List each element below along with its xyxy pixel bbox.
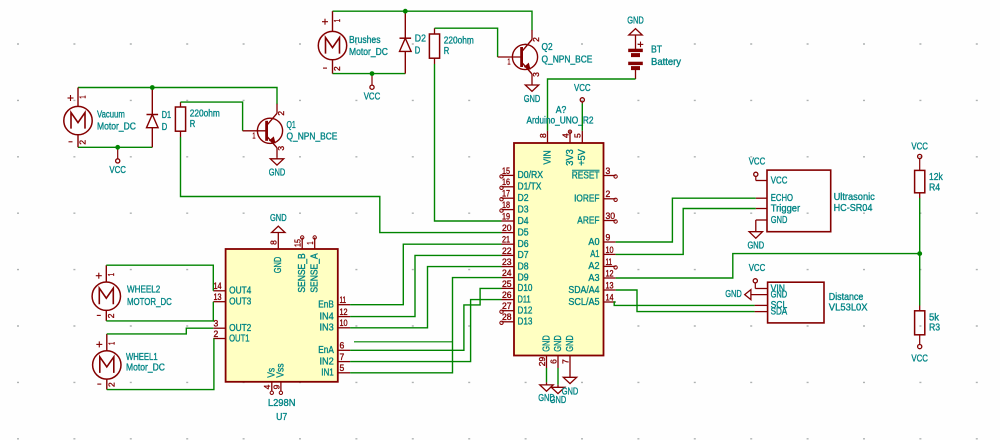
svg-text:2: 2: [78, 140, 88, 145]
svg-text:12: 12: [340, 307, 348, 317]
svg-text:22: 22: [502, 246, 512, 256]
svg-text:D12: D12: [518, 306, 533, 317]
svg-text:15: 15: [293, 239, 303, 247]
svg-text:GND: GND: [725, 289, 742, 300]
svg-text:Trigger: Trigger: [771, 203, 801, 214]
svg-text:15: 15: [502, 166, 510, 176]
svg-text:VCC: VCC: [364, 91, 381, 102]
svg-text:6: 6: [340, 341, 345, 351]
svg-text:D: D: [415, 46, 421, 57]
svg-text:1: 1: [106, 342, 116, 345]
svg-text:VCC: VCC: [749, 157, 766, 168]
svg-text:D13: D13: [518, 317, 533, 328]
svg-text:EnA: EnA: [318, 345, 334, 356]
svg-text:D8: D8: [518, 261, 529, 272]
svg-text:A3: A3: [588, 273, 599, 284]
svg-text:8: 8: [269, 240, 279, 245]
svg-text:WHEEL2: WHEEL2: [127, 285, 161, 296]
svg-text:12: 12: [606, 268, 614, 278]
svg-text:SDA/A4: SDA/A4: [568, 285, 599, 296]
svg-text:4: 4: [560, 133, 570, 138]
svg-text:GND: GND: [771, 215, 788, 226]
svg-text:D0/RX: D0/RX: [518, 170, 544, 181]
svg-text:A0: A0: [588, 237, 599, 248]
svg-text:VCC: VCC: [749, 263, 766, 274]
svg-text:GND: GND: [269, 168, 286, 179]
svg-text:GND: GND: [524, 94, 541, 105]
svg-text:3: 3: [606, 166, 611, 176]
svg-text:SDA: SDA: [771, 306, 788, 317]
svg-text:27: 27: [502, 301, 512, 311]
svg-text:21: 21: [502, 235, 510, 245]
svg-text:D1: D1: [162, 110, 172, 121]
svg-text:29: 29: [537, 357, 547, 367]
svg-text:+5V: +5V: [577, 149, 588, 166]
svg-text:IOREF: IOREF: [574, 194, 599, 205]
svg-text:1: 1: [332, 19, 342, 22]
svg-text:R: R: [190, 119, 196, 130]
svg-text:WHEEL1: WHEEL1: [126, 352, 158, 363]
svg-text:AREF: AREF: [577, 215, 599, 226]
svg-text:28: 28: [502, 312, 512, 322]
svg-text:BT: BT: [651, 45, 662, 56]
svg-text:16: 16: [502, 177, 510, 187]
svg-text:SCL/A5: SCL/A5: [568, 297, 599, 308]
svg-text:VCC: VCC: [574, 83, 591, 94]
svg-text:GND: GND: [771, 289, 788, 300]
svg-text:SENSE_A: SENSE_A: [310, 253, 321, 292]
svg-text:Motor_DC: Motor_DC: [126, 363, 165, 374]
svg-text:18: 18: [502, 200, 510, 210]
svg-text:25: 25: [502, 279, 512, 289]
svg-text:GND: GND: [541, 335, 552, 352]
svg-text:MOTOR_DC: MOTOR_DC: [127, 297, 172, 308]
svg-text:OUT3: OUT3: [229, 297, 251, 308]
svg-text:12k: 12k: [929, 172, 944, 183]
svg-text:6: 6: [548, 359, 558, 364]
svg-text:D1/TX: D1/TX: [518, 182, 542, 193]
svg-text:10: 10: [606, 245, 614, 255]
svg-text:8: 8: [538, 133, 548, 138]
svg-text:D6: D6: [518, 239, 529, 250]
svg-text:Vss: Vss: [276, 363, 287, 377]
svg-text:GND: GND: [553, 335, 564, 352]
svg-text:2: 2: [606, 189, 611, 199]
svg-text:2: 2: [106, 382, 116, 387]
svg-text:2: 2: [531, 37, 541, 42]
svg-text:R4: R4: [929, 182, 940, 193]
svg-text:Q2: Q2: [542, 42, 553, 53]
svg-text:Brushes: Brushes: [349, 35, 381, 46]
svg-text:GND: GND: [627, 16, 644, 27]
svg-text:5: 5: [573, 133, 583, 138]
svg-text:Battery: Battery: [651, 57, 682, 68]
svg-text:GND: GND: [562, 387, 579, 398]
svg-text:Q1: Q1: [287, 120, 297, 131]
svg-text:9: 9: [606, 232, 611, 242]
svg-text:2: 2: [276, 111, 286, 116]
svg-text:D2: D2: [518, 193, 529, 204]
svg-text:Distance: Distance: [829, 292, 864, 303]
svg-text:GND: GND: [748, 241, 765, 252]
svg-text:D2: D2: [415, 34, 426, 45]
svg-text:VCC: VCC: [109, 165, 126, 176]
svg-text:5k: 5k: [929, 312, 940, 323]
svg-text:7: 7: [560, 359, 570, 364]
svg-text:20: 20: [502, 223, 512, 233]
svg-text:GND: GND: [273, 257, 284, 274]
svg-text:30: 30: [606, 211, 616, 221]
svg-text:VL53L0X: VL53L0X: [829, 302, 868, 313]
svg-text:A2: A2: [588, 261, 599, 272]
svg-text:17: 17: [502, 189, 510, 199]
svg-text:Q_NPN_BCE: Q_NPN_BCE: [542, 55, 593, 66]
svg-text:D5: D5: [518, 227, 529, 238]
svg-text:3: 3: [276, 146, 286, 151]
svg-text:RESET: RESET: [572, 170, 600, 181]
svg-text:R: R: [444, 46, 450, 57]
svg-text:IN4: IN4: [320, 311, 335, 322]
svg-text:26: 26: [502, 290, 512, 300]
svg-text:3V3: 3V3: [565, 149, 576, 166]
svg-text:IN1: IN1: [321, 368, 334, 379]
svg-text:IN2: IN2: [320, 356, 335, 367]
svg-text:IN3: IN3: [320, 323, 335, 334]
svg-text:A1: A1: [590, 249, 600, 260]
svg-text:2: 2: [106, 313, 116, 318]
svg-text:Motor_DC: Motor_DC: [349, 47, 388, 58]
svg-text:Q_NPN_BCE: Q_NPN_BCE: [287, 131, 338, 142]
svg-text:OUT4: OUT4: [229, 286, 251, 297]
svg-text:1: 1: [507, 57, 510, 67]
svg-text:D4: D4: [518, 216, 529, 227]
svg-text:SENSE_B: SENSE_B: [297, 253, 308, 292]
svg-text:VCC: VCC: [911, 141, 928, 152]
svg-text:1: 1: [305, 241, 315, 244]
svg-text:VIN: VIN: [542, 150, 553, 164]
svg-text:D: D: [162, 122, 168, 133]
svg-text:220ohm: 220ohm: [190, 109, 220, 120]
svg-text:11: 11: [340, 295, 347, 305]
svg-text:VCC: VCC: [771, 175, 788, 186]
svg-text:GND: GND: [270, 213, 287, 224]
svg-text:11: 11: [606, 257, 613, 267]
svg-text:2: 2: [332, 66, 342, 71]
svg-text:GND: GND: [565, 335, 576, 352]
svg-text:7: 7: [340, 352, 345, 362]
svg-text:D3: D3: [518, 204, 529, 215]
svg-text:3: 3: [531, 72, 541, 77]
svg-text:Ultrasonic: Ultrasonic: [834, 192, 875, 203]
svg-text:D11: D11: [518, 294, 531, 305]
svg-text:R3: R3: [929, 323, 940, 334]
svg-text:24: 24: [502, 268, 512, 278]
svg-text:14: 14: [606, 292, 614, 302]
svg-text:VCC: VCC: [911, 353, 928, 364]
svg-text:U7: U7: [276, 412, 287, 423]
svg-text:23: 23: [502, 257, 512, 267]
svg-text:2: 2: [214, 329, 219, 339]
svg-text:13: 13: [214, 292, 222, 302]
svg-text:5: 5: [340, 363, 345, 373]
svg-text:Arduino_UNO_R2: Arduino_UNO_R2: [526, 115, 593, 126]
svg-text:EnB: EnB: [318, 300, 334, 311]
svg-text:D10: D10: [518, 283, 533, 294]
svg-text:19: 19: [502, 211, 510, 221]
svg-text:220ohm: 220ohm: [444, 36, 474, 47]
svg-text:1: 1: [252, 130, 255, 140]
svg-text:13: 13: [606, 280, 614, 290]
svg-text:3: 3: [214, 319, 219, 329]
svg-text:OUT1: OUT1: [229, 333, 250, 344]
svg-text:L298N: L298N: [268, 398, 296, 409]
svg-text:1: 1: [78, 95, 88, 98]
svg-text:Vacuum: Vacuum: [97, 110, 125, 121]
svg-text:1: 1: [106, 273, 116, 276]
svg-text:HC-SR04: HC-SR04: [834, 203, 873, 214]
svg-text:D9: D9: [518, 272, 529, 283]
svg-text:9: 9: [271, 384, 281, 389]
svg-text:D7: D7: [518, 250, 529, 261]
svg-text:14: 14: [214, 281, 222, 291]
svg-text:10: 10: [340, 318, 348, 328]
svg-text:Motor_DC: Motor_DC: [97, 122, 136, 133]
